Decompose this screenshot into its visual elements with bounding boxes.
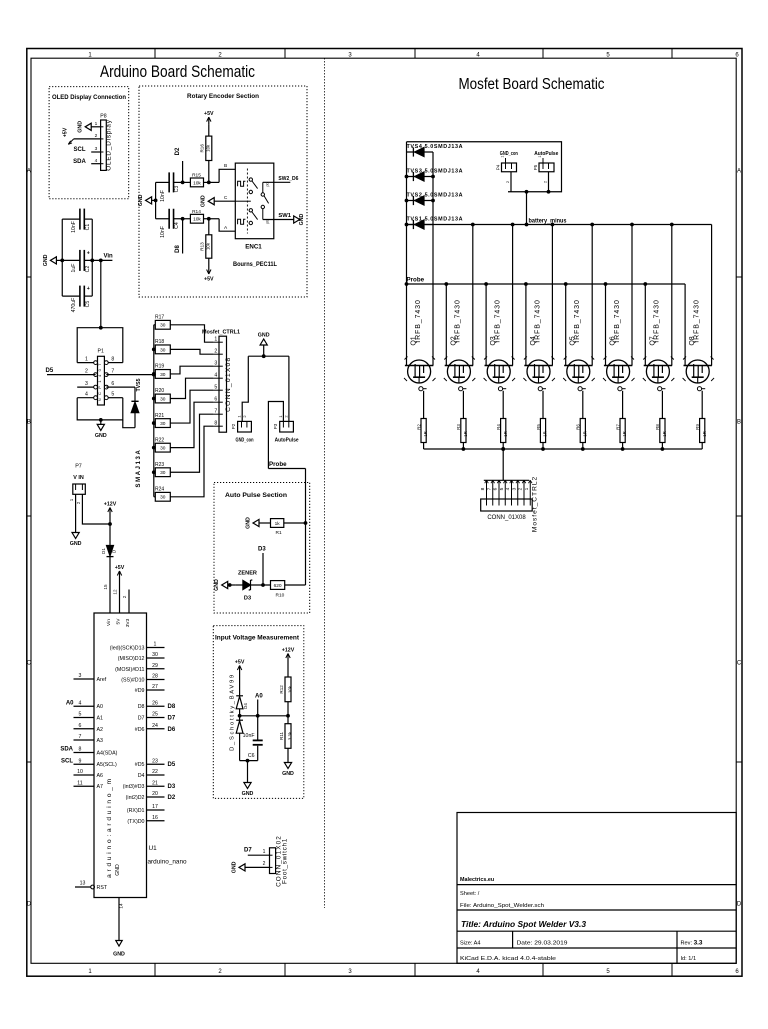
svg-text:(TX)D0: (TX)D0: [127, 819, 144, 825]
wire IVM bottom: [240, 760, 258, 762]
svg-text:10nF: 10nF: [71, 221, 77, 233]
ground GND (P1): [100, 420, 102, 425]
junction / net stub D2: [181, 181, 185, 185]
svg-text:C: C: [27, 661, 32, 667]
wire P1 pin2 / net D5: [47, 374, 96, 376]
svg-text:+: +: [87, 286, 90, 292]
svg-text:arduino:arduino_m: arduino:arduino_m: [106, 776, 113, 878]
svg-text:GND: GND: [115, 864, 121, 876]
svg-text:4: 4: [79, 700, 82, 706]
wire Q3 source column: [485, 284, 487, 366]
svg-text:C1: C1: [85, 224, 91, 231]
svg-text:1: 1: [154, 642, 157, 648]
svg-text:7: 7: [79, 734, 82, 740]
resistor R21 30: [154, 422, 156, 424]
wire R3 to gate rail: [462, 443, 464, 450]
wire P1 pin6 to TVS: [106, 386, 135, 388]
svg-text:IRFB_7430: IRFB_7430: [495, 299, 502, 343]
wire D1 to Vin pin: [109, 557, 111, 613]
pin 6 A2: [74, 728, 95, 730]
svg-text:GND: GND: [232, 861, 238, 873]
svg-text:3.3k: 3.3k: [288, 731, 293, 740]
connector P2 GND_con: [238, 421, 252, 432]
svg-text:R22: R22: [155, 437, 164, 443]
svg-text:A1: A1: [97, 716, 104, 722]
svg-text:17: 17: [152, 804, 158, 810]
diode D4 D_Schottky_BAV99: [239, 673, 241, 696]
wire +12V to R12: [287, 661, 289, 677]
svg-text:C4: C4: [174, 222, 180, 229]
svg-text:30: 30: [160, 347, 166, 353]
svg-text:D7: D7: [138, 716, 145, 722]
wire R4 to gate rail: [502, 443, 504, 450]
pin 13 RST: [75, 886, 91, 888]
svg-text:D5: D5: [168, 762, 176, 768]
wire Q6 source column: [605, 284, 607, 366]
power +5V (bottom of R13): [208, 258, 210, 266]
svg-text:GND: GND: [246, 517, 252, 529]
svg-text:A6: A6: [97, 773, 104, 779]
ground GND (zener): [222, 581, 228, 588]
TVS diode TVS1 5.0SMDJ13A: [407, 224, 434, 226]
svg-text:4: 4: [505, 487, 511, 490]
ground GND (R11): [287, 758, 289, 763]
wire GND split: [248, 355, 289, 357]
capacitor C4 10nF: [156, 218, 169, 220]
pin 30 (MISO)D12: [147, 657, 165, 659]
pin 5 A1: [74, 717, 95, 719]
wire Q7 source column: [644, 284, 646, 366]
svg-text:GND: GND: [299, 213, 305, 225]
wire 3V3 stub: [128, 590, 130, 614]
svg-text:10k: 10k: [193, 180, 201, 186]
svg-text:GND: GND: [70, 541, 82, 547]
svg-text:Foot_switch1: Foot_switch1: [281, 838, 288, 884]
svg-text:SCL: SCL: [61, 759, 73, 765]
svg-text:TVS5: TVS5: [136, 378, 142, 391]
wire P8 pin1 GND: [91, 126, 100, 128]
svg-text:+: +: [87, 250, 90, 256]
svg-text:B: B: [224, 163, 227, 169]
svg-text:C: C: [224, 195, 228, 201]
wire R23 to CTRL1 pin 7: [170, 414, 213, 472]
svg-text:(RX)D1: (RX)D1: [127, 808, 145, 814]
resistor R17 30: [154, 324, 156, 326]
svg-text:1: 1: [524, 487, 530, 490]
svg-text:V IN: V IN: [73, 475, 84, 481]
wire encoder SW2 to net label: [263, 181, 291, 183]
svg-text:4: 4: [214, 372, 217, 378]
svg-text:SMAJ13A: SMAJ13A: [136, 449, 142, 488]
wire Q6 drain column: [631, 225, 633, 366]
wire battery_minus rail: [407, 224, 712, 226]
pin 26 D8: [147, 705, 165, 707]
section box: Rotary Encoder Section: [139, 86, 307, 297]
svg-text:IRFB_7430: IRFB_7430: [574, 299, 581, 343]
svg-text:#D9: #D9: [135, 688, 145, 694]
wire Q4 source column: [525, 284, 527, 366]
wire P1 pin4: [77, 397, 94, 399]
wire P7 pin2 to +12V node: [82, 494, 110, 524]
svg-text:30: 30: [160, 372, 166, 378]
svg-text:+12V: +12V: [282, 648, 295, 654]
svg-text:GND: GND: [242, 791, 254, 797]
capacitor C3 10nF: [156, 181, 169, 183]
wire P1 bottom loop: [77, 398, 123, 420]
wire gate rail drop to CTRL2: [501, 447, 505, 451]
wire gate rail: [424, 448, 703, 450]
section box: Auto Pulse Section: [214, 483, 310, 614]
svg-text:ENC1: ENC1: [245, 244, 262, 251]
pin 14 GND / ground: [118, 898, 120, 941]
svg-text:Arduino Board Schematic: Arduino Board Schematic: [100, 63, 255, 81]
ground GND (foot switch): [239, 864, 245, 871]
svg-text:5: 5: [79, 712, 82, 718]
svg-text:IRFB_7430: IRFB_7430: [455, 299, 462, 343]
resistor R20 30: [154, 398, 156, 400]
svg-text:Rotary Encoder Section: Rotary Encoder Section: [187, 93, 259, 100]
svg-text:GND: GND: [113, 952, 125, 958]
svg-text:13: 13: [80, 881, 86, 887]
wire Q7 drain column: [671, 225, 673, 366]
wire P1 pin3: [77, 386, 94, 388]
svg-text:TVS4 5.0SMDJ13A: TVS4 5.0SMDJ13A: [407, 144, 463, 150]
wire R14 to encoder pin A: [204, 218, 220, 220]
resistor R19 30: [154, 373, 156, 375]
svg-text:1: 1: [501, 155, 505, 157]
connector P3 AutoPulse: [280, 421, 294, 432]
svg-text:R8: R8: [655, 424, 660, 430]
svg-text:22: 22: [152, 769, 158, 775]
connector P1: [98, 356, 105, 405]
wire R11 to GND: [287, 748, 289, 758]
svg-text:A2: A2: [97, 727, 104, 733]
svg-text:D8: D8: [168, 704, 176, 710]
power +12V: [109, 508, 111, 516]
svg-text:Rev: 3.3: Rev: 3.3: [681, 940, 703, 947]
wire Q2 gate: [462, 391, 464, 419]
svg-text:P4: P4: [495, 164, 500, 170]
svg-text:26: 26: [152, 700, 158, 706]
svg-text:A: A: [27, 169, 31, 175]
svg-text:R7: R7: [615, 424, 620, 430]
svg-text:CONN_01X08: CONN_01X08: [487, 515, 526, 521]
svg-text:2: 2: [518, 487, 524, 490]
wire P5 pin2 down: [548, 172, 550, 192]
resistor R6 1R: [580, 419, 585, 443]
wire Q1 gate: [423, 391, 425, 419]
svg-text:ZENER: ZENER: [238, 571, 257, 577]
svg-text:2: 2: [214, 348, 217, 354]
svg-text:D4: D4: [243, 703, 248, 709]
svg-text:#D5: #D5: [135, 762, 145, 768]
wire right vertical (auto pulse): [305, 523, 307, 585]
svg-text:10nF: 10nF: [243, 733, 255, 739]
svg-text:GND: GND: [138, 194, 144, 206]
svg-text:TVS3 5.0SMDJ13A: TVS3 5.0SMDJ13A: [407, 168, 463, 174]
wire resistor bus (R17-R24): [153, 325, 155, 497]
pin 1 (led)(SCK)D13: [147, 647, 165, 649]
svg-text:TVS2 5.0SMDJ13A: TVS2 5.0SMDJ13A: [407, 192, 463, 198]
svg-text:3V3: 3V3: [125, 618, 131, 627]
svg-text:IRFB_7430: IRFB_7430: [654, 299, 661, 343]
svg-text:SW2_D6: SW2_D6: [278, 176, 299, 182]
resistor R18 30: [154, 348, 156, 350]
transistor Q3 IRFB_7430: [485, 365, 513, 367]
svg-text:KiCad E.D.A. kicad 4.0.4-stab: KiCad E.D.A. kicad 4.0.4-stable: [460, 956, 556, 962]
svg-text:battery_minus: battery_minus: [529, 217, 567, 224]
wire R21 to CTRL1 pin 5: [170, 390, 213, 423]
svg-text:C5: C5: [85, 301, 91, 308]
svg-text:2: 2: [122, 595, 127, 598]
svg-text:CONN_01X08: CONN_01X08: [225, 356, 232, 411]
svg-text:Malectrics.eu: Malectrics.eu: [460, 877, 494, 883]
svg-text:30: 30: [160, 446, 166, 452]
svg-text:20: 20: [152, 791, 158, 797]
svg-text:2: 2: [95, 133, 98, 139]
transistor Q6 IRFB_7430: [604, 365, 632, 367]
connector Mosfet_CTRL2 CONN_01X08 (right): [484, 479, 529, 481]
resistor R7 1R: [620, 419, 625, 443]
svg-text:30: 30: [160, 396, 166, 402]
svg-text:Aref: Aref: [97, 677, 107, 683]
svg-text:A5(SCL): A5(SCL): [97, 762, 118, 768]
svg-text:IRFB_7430: IRFB_7430: [534, 299, 541, 343]
ground GND (rotary rail): [152, 199, 156, 201]
svg-text:OLED Display Connection: OLED Display Connection: [52, 94, 126, 101]
power +5V (arduino): [119, 571, 121, 579]
wire encoder SW1 to GND: [263, 219, 294, 221]
svg-text:Mosfet_CTRL2: Mosfet_CTRL2: [532, 476, 539, 532]
svg-text:C2: C2: [85, 266, 91, 273]
junction R15/R16: [207, 181, 211, 185]
section box: Input Voltage Measurement: [213, 626, 303, 799]
svg-text:P1: P1: [98, 349, 104, 355]
wire +5V to 5V pin: [119, 579, 121, 614]
svg-text:R21: R21: [155, 413, 164, 419]
pin 21 (int3)#D3: [147, 785, 165, 787]
resistor R15 10k: [190, 178, 203, 187]
svg-text:1: 1: [538, 155, 542, 157]
wire Q8 gate: [701, 391, 703, 419]
svg-text:1: 1: [95, 121, 98, 127]
svg-text:R17: R17: [155, 315, 164, 321]
wire R2 to gate rail: [423, 443, 425, 450]
wire P8 pin4 SDA: [91, 163, 100, 165]
pin 24 #D6: [147, 728, 165, 730]
svg-text:Date: 29.03.2019: Date: 29.03.2019: [517, 941, 568, 947]
wire GND to P2 pin1: [242, 356, 248, 421]
svg-text:4: 4: [95, 158, 98, 164]
svg-text:6: 6: [493, 487, 499, 490]
svg-text:D3: D3: [258, 547, 266, 553]
svg-text:R3: R3: [456, 424, 461, 430]
wire foot switch pin1: [248, 854, 270, 856]
svg-text:R9: R9: [695, 424, 700, 430]
wire TVS left rail: [406, 142, 408, 366]
wire TVS right rail: [432, 152, 434, 366]
svg-text:1R: 1R: [423, 431, 428, 436]
svg-text:6: 6: [214, 396, 217, 402]
svg-text:R23: R23: [155, 462, 164, 468]
wire GND to encoder pin C: [214, 200, 235, 202]
svg-text:R12: R12: [279, 685, 284, 694]
svg-text:IRFB_7430: IRFB_7430: [614, 299, 621, 343]
resistor R12 10k: [285, 677, 291, 702]
pin 20 (int2)D2: [147, 796, 165, 798]
pin 22 D4: [147, 774, 165, 776]
pin 17 (RX)D1: [147, 809, 165, 811]
svg-text:5V: 5V: [115, 618, 121, 625]
resistor R3 1R: [461, 419, 466, 443]
title block: [457, 813, 736, 964]
wire Probe (left board): [268, 468, 305, 470]
transistor Q2 IRFB_7430: [445, 365, 473, 367]
wire GND row to C2: [62, 259, 80, 261]
svg-text:1R: 1R: [662, 431, 667, 436]
wire cap rail right: [91, 219, 93, 296]
wire R20 to CTRL1 pin 4: [170, 378, 213, 398]
svg-text:Auto Pulse Section: Auto Pulse Section: [225, 492, 287, 499]
wire P1 pin5: [108, 397, 123, 399]
svg-text:10k: 10k: [288, 685, 293, 693]
wire R17 to CTRL1 pin 1: [170, 325, 213, 342]
wire R9 to gate rail: [701, 443, 703, 450]
svg-text:27: 27: [152, 684, 158, 690]
wire R7 to gate rail: [622, 443, 624, 450]
svg-text:GND: GND: [78, 121, 84, 133]
wire R8 to gate rail: [661, 443, 663, 450]
svg-text:Vin: Vin: [106, 619, 112, 626]
wire P8 pin2 +5V: [74, 138, 101, 140]
diode D1: [107, 546, 114, 557]
ground GND (SW1): [294, 216, 300, 223]
wire P8 pin3 SCL: [91, 151, 100, 153]
resistor R16 10k: [206, 136, 212, 160]
resistor R10 620: [271, 581, 285, 590]
svg-text:D: D: [737, 902, 742, 908]
svg-text:3: 3: [95, 146, 98, 152]
svg-text:(SS)#D10: (SS)#D10: [121, 678, 144, 684]
wire Vin down to P1: [100, 260, 102, 327]
svg-text:30: 30: [160, 323, 166, 329]
ground GND (R1): [253, 519, 259, 526]
svg-text:R20: R20: [155, 388, 164, 394]
wire R22 to CTRL1 pin 6: [170, 402, 213, 447]
svg-text:23: 23: [152, 758, 158, 764]
svg-text:1R: 1R: [582, 431, 587, 436]
pin 4 A0: [74, 705, 95, 707]
pin 7 A3: [74, 739, 95, 741]
svg-text:10k: 10k: [205, 144, 210, 152]
svg-text:Title: Arduino Spot Welder V3.: Title: Arduino Spot Welder V3.3: [461, 919, 586, 929]
wire P1 top loop: [77, 328, 123, 363]
wire Q5 source column: [565, 284, 567, 366]
ground GND (IVM): [247, 778, 249, 783]
svg-text:+5V: +5V: [235, 660, 245, 666]
svg-text:(int2)D2: (int2)D2: [126, 795, 145, 801]
pin 3 Aref: [74, 678, 95, 680]
svg-text:RST: RST: [97, 885, 108, 891]
svg-text:GND: GND: [95, 433, 107, 439]
wire R19 to CTRL1 pin 3: [170, 366, 213, 374]
connector P8 OLED_Display: [101, 120, 107, 170]
svg-text:pb: pb: [266, 183, 270, 187]
svg-text:pb: pb: [266, 220, 270, 224]
svg-text:Mosfet_CTRL1: Mosfet_CTRL1: [202, 330, 240, 336]
wire R16 to C3 row: [208, 161, 210, 183]
svg-text:1: 1: [214, 336, 217, 342]
wire Q3 gate: [502, 391, 504, 419]
svg-text:File: Arduino_Spot_Welder.sch: File: Arduino_Spot_Welder.sch: [460, 903, 544, 909]
svg-text:GND: GND: [258, 333, 270, 339]
transistor Q1 IRFB_7430: [405, 365, 433, 367]
svg-text:+5V: +5V: [204, 111, 214, 117]
svg-text:10k: 10k: [205, 242, 210, 250]
svg-text:D_Schottky_BAV99: D_Schottky_BAV99: [229, 673, 235, 751]
pin 9 A5(SCL): [74, 763, 95, 765]
svg-text:9: 9: [79, 758, 82, 764]
svg-text:D: D: [27, 902, 32, 908]
svg-text:R5: R5: [536, 424, 541, 430]
svg-text:4: 4: [85, 392, 88, 398]
ground GND (encoder pin C): [208, 198, 214, 205]
svg-text:R1: R1: [276, 530, 282, 536]
TVS diode TVS5 SMAJ13A: [134, 387, 136, 401]
svg-text:GND: GND: [214, 579, 220, 591]
svg-text:(led)(SCK)D13: (led)(SCK)D13: [110, 646, 145, 652]
svg-text:1R: 1R: [463, 431, 468, 436]
svg-text:5: 5: [111, 392, 114, 398]
net stub D3: [262, 553, 264, 585]
wire mid node (IVM): [240, 715, 288, 717]
svg-text:GND: GND: [43, 254, 49, 266]
svg-text:C3: C3: [174, 186, 180, 193]
wire Vin row: [84, 259, 112, 261]
svg-text:1uF: 1uF: [71, 264, 77, 273]
svg-text:R24: R24: [155, 487, 164, 493]
wire Q5 gate: [582, 391, 584, 419]
svg-text:3: 3: [214, 360, 217, 366]
svg-text:14: 14: [118, 903, 123, 909]
svg-text:NCP1407: NCP1407: [97, 360, 102, 401]
svg-text:(MOSI)#D11: (MOSI)#D11: [115, 667, 144, 673]
svg-text:GND: GND: [282, 771, 294, 777]
resistor R22 30: [154, 447, 156, 449]
transistor Q4 IRFB_7430: [524, 365, 552, 367]
wire R5 to gate rail: [542, 443, 544, 450]
svg-text:12: 12: [112, 589, 117, 595]
svg-text:#D6: #D6: [135, 727, 145, 733]
svg-text:D4: D4: [138, 773, 145, 779]
svg-text:7: 7: [214, 408, 217, 414]
svg-text:7: 7: [486, 487, 492, 490]
svg-text:5: 5: [214, 384, 217, 390]
svg-text:R10: R10: [276, 592, 285, 598]
ground GND (P7): [75, 528, 77, 533]
svg-text:R13: R13: [199, 242, 204, 251]
svg-text:B: B: [737, 420, 741, 426]
wire Q5 drain column: [591, 225, 593, 366]
svg-text:30: 30: [152, 652, 158, 658]
svg-text:IRFB_7430: IRFB_7430: [415, 299, 422, 343]
pin 25 D7: [147, 717, 165, 719]
wire Q7 gate: [661, 391, 663, 419]
zener diode D3 ZENER: [236, 584, 243, 586]
TVS diode TVS2 5.0SMDJ13A: [407, 200, 434, 202]
svg-text:7: 7: [111, 369, 114, 375]
wire Q2 source column: [445, 284, 447, 366]
